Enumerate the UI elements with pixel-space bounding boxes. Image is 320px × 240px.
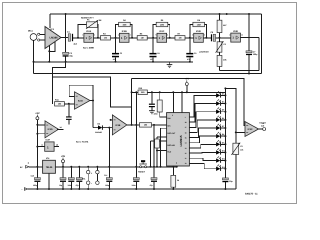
wire LED2 fan [189,104,216,123]
junction [224,127,226,129]
inverter IC2C [156,30,169,42]
capacitor C9 [149,104,159,116]
junction [36,188,38,190]
junction [115,37,117,39]
svg-text:100µ: 100µ [33,184,37,187]
wire C8 bottom [68,120,70,125]
inverter IC2F [45,139,54,152]
wire P1 right [97,25,99,38]
resistor R10 [217,55,222,66]
junction [205,37,207,39]
wire +9V top rail [50,13,262,15]
svg-text:3: 3 [172,114,173,117]
wire LED anode bus [224,88,226,177]
wire pin2 stub [176,165,178,168]
LED D12 [216,165,225,171]
inverter IC2A [82,30,95,42]
wire trigger out [258,128,263,130]
svg-text:P2: P2 [224,43,226,46]
wire [147,37,157,39]
wire LED lead [221,103,225,105]
wire to P3 and -in [225,88,235,143]
svg-text:LM3915: LM3915 [179,135,183,146]
wire top-section bottom line [34,73,262,75]
wire C7 to ground [248,55,250,73]
svg-text:trigger: trigger [260,122,267,125]
wire IC2E out [240,37,259,39]
wire feedback left [116,25,119,38]
wire C14 net vertical [108,128,110,167]
svg-text:+: + [27,161,29,165]
LED D8 [216,132,224,138]
junction [131,91,133,93]
svg-text:IC3C: IC3C [248,128,253,131]
capacitor C8 [66,116,72,120]
junction [96,166,98,168]
wire [111,37,120,39]
svg-text:030275 - 11: 030275 - 11 [245,193,258,196]
wire R15 to ground [172,187,174,189]
junction [36,166,38,168]
svg-text:C10: C10 [31,174,34,177]
junction [153,166,155,168]
wire C13 stub [78,167,80,178]
junction [115,61,117,63]
wire P2 top [219,38,221,42]
svg-text:1M: 1M [141,37,144,40]
wire IC3B out [127,124,140,126]
terminal battery + [20,161,29,169]
svg-text:C3: C3 [120,52,122,55]
junction [48,50,50,52]
trimmer P3 [231,143,240,155]
wire IC1 supply [49,14,51,28]
wire to RHI pin [160,116,167,118]
svg-text:LOW/HIGH: LOW/HIGH [199,51,209,54]
wire IC3C -in [236,131,245,133]
svg-text:C14: C14 [104,174,107,177]
wire C10 to ground [36,182,38,189]
wire LED1 fan [189,95,216,117]
wire LED lead [221,119,225,121]
wire feedback right [130,25,132,38]
op-amp IC3B [112,115,127,135]
svg-text:12: 12 [56,143,58,146]
svg-text:IC3A: IC3A [78,99,83,102]
junction [153,188,155,190]
svg-text:11: 11 [185,157,187,160]
wire IC4 ground pin [48,173,50,189]
junction [108,127,110,129]
wire mic ground vertical [33,40,35,73]
wire ground to P3 [235,154,237,189]
wire [167,37,175,39]
junction [189,61,191,63]
wire V+ pin drop [181,92,183,112]
svg-text:10M: 10M [122,23,126,26]
junction [131,124,133,126]
wire C2 branch [65,14,67,52]
junction [219,37,221,39]
wire K1b stub [96,167,98,171]
svg-text:RESET: RESET [138,171,145,174]
junction [36,133,38,135]
LED D6 [216,116,224,122]
capacitor C17 [222,178,233,183]
junction [87,188,89,190]
junction [159,91,161,93]
capacitor C13 [76,178,82,182]
svg-text:100µ: 100µ [105,184,109,187]
resistor R9 [217,20,222,32]
junction [135,166,137,168]
inverter IC2D [192,30,205,42]
junction [151,91,153,93]
wire IC1 gain pins [49,42,55,51]
resistor R4 [119,22,131,26]
wire IC3D input vertical [36,120,38,167]
capacitor C5 [186,52,196,61]
wire LED7 fan [189,144,216,148]
svg-text:1M: 1M [104,37,107,40]
junction [152,37,154,39]
wire feedback right [205,25,207,38]
capacitor C14 [106,178,112,182]
svg-text:out: out [261,124,265,127]
svg-text:P3: P3 [240,145,242,148]
wire C9 to ground [151,107,153,111]
junction [156,150,158,152]
junction [65,61,67,63]
wire LED lead [221,111,225,113]
wire C4 stub [152,38,154,53]
wire R15 stub [172,167,174,176]
terminal trigger out [260,122,267,131]
junction [248,13,250,15]
resistor R6 [156,22,168,26]
wire C16 net vertical [153,125,155,167]
wire IC3B -in [111,119,113,121]
svg-text:LM386: LM386 [50,37,59,40]
op-amp IC3A [75,92,91,110]
svg-text:10M: 10M [160,23,164,26]
resistor R10 [138,90,147,95]
LED D7 [216,124,224,130]
junction [152,61,154,63]
svg-text:16: 16 [185,131,187,134]
svg-text:1: 1 [185,116,186,119]
wire [129,37,137,39]
wire C7 branch [248,14,250,51]
wire C16 stub [153,167,155,178]
wire +5V rail [55,166,176,168]
LED D4 [216,99,224,105]
junction [65,13,67,15]
wire pin to rail [150,141,152,167]
junction [78,188,80,190]
wire pin stub [151,140,167,142]
junction [224,94,226,96]
wire IC3D -in [37,133,45,135]
junction [48,188,50,190]
svg-text:IC3B: IC3B [115,124,120,127]
resistor R11 [55,102,65,106]
resistor R12 [140,123,152,127]
wire K1 stub [87,167,89,171]
wire feedback left [190,25,193,38]
LED D3 [216,91,224,97]
wire C5 stub [189,38,191,53]
junction [176,166,178,168]
junction [224,111,226,113]
wire K1 middle [87,174,89,181]
wire IC3D out [57,128,63,130]
svg-text:IC2B: IC2B [122,30,127,33]
wire R9 top [219,14,221,20]
svg-text:+5V: +5V [61,155,66,158]
regulator IC4 78L05 [43,157,56,173]
wire R13 bottom stub [159,112,161,117]
wire [90,100,93,102]
junction [70,166,72,168]
capacitor C15 [133,178,139,182]
junction [224,103,226,105]
wire C15 stub [135,167,137,178]
wire IC2F out [54,146,59,148]
wire IC3D +in [37,124,45,126]
wire battery to IC4 [29,166,43,168]
svg-text:RHI: RHI [167,117,171,120]
svg-text:12: 12 [185,152,187,155]
wire C16 to ground [153,182,155,189]
wire K1 to ground [87,184,89,189]
junction [70,188,72,190]
wire IC2E output drop [258,38,260,71]
junction [108,188,110,190]
junction [87,166,89,168]
junction [78,166,80,168]
wire [94,37,101,39]
capacitor C2 [63,52,74,58]
junction [153,124,155,126]
wire ground rail [28,188,236,190]
ground [169,62,171,65]
wire LED lead [221,94,225,96]
wire R13 top stub [159,92,161,100]
junction [224,135,226,137]
wire feedback loop [53,77,132,107]
wire C9 stub [151,92,153,103]
wire IC1 to ground [48,51,50,62]
wire +5V stub [62,163,64,167]
capacitor C3 [112,52,122,61]
junction [36,124,38,126]
op-amp IC3D [45,121,59,138]
junction [169,37,171,39]
wire to D2 [92,101,94,128]
junction [135,91,137,93]
potentiometer P1 [86,20,98,29]
svg-text:C5: C5 [194,52,196,55]
wire pin9 drop [172,92,174,112]
wire LED5 fan [189,128,216,138]
junction [97,37,99,39]
junction [224,87,226,89]
wire mic to IC1 +in [40,33,45,35]
wire LED9 fan [189,158,216,160]
wire REF OUT stub [157,136,167,138]
capacitor C16 [151,178,157,182]
svg-text:10µ: 10µ [59,184,62,187]
wire C15 to ground [135,182,137,189]
svg-text:78L05: 78L05 [46,166,53,169]
wire pin to rail [160,128,162,167]
wire C8 stub [68,104,70,117]
svg-text:10: 10 [185,162,187,165]
junction [219,13,221,15]
wire LED lead [221,160,225,162]
op-amp IC3C [245,122,259,137]
supply terminal +9V [35,112,40,120]
LED D10 [216,148,225,154]
wire P2 to R10 [219,52,221,55]
inverter IC2B [118,30,131,42]
svg-text:IC2 = 4069: IC2 = 4069 [83,46,95,49]
svg-text:2: 2 [176,162,177,165]
wire R11 to IC3A [64,103,74,105]
IC LM3915 IC5 [167,113,190,166]
capacitor C11 [60,178,66,182]
wire right vertical [261,14,263,74]
wire LED4 fan [189,120,216,133]
wire IC2F in [37,146,44,148]
svg-text:IC3 = TL074: IC3 = TL074 [76,140,89,143]
svg-text:REF ADJ: REF ADJ [167,144,175,147]
capacitor C6 [211,31,216,42]
wire C15 net vertical [135,92,137,167]
wire IC1 out [61,37,68,39]
wire R10 to feedback [219,66,221,70]
op-amp IC1 [45,27,61,49]
svg-text:+9V: +9V [35,112,40,115]
wire K1b middle [96,174,98,181]
svg-text:IC2C: IC2C [159,30,164,33]
junction [108,166,110,168]
wire LED lead [221,168,225,170]
junction [135,124,137,126]
wire C3 stub [115,38,117,53]
svg-text:IC2F: IC2F [46,139,51,142]
wire C4 to ground [152,57,154,62]
wire C3 to ground [115,57,117,62]
wire LED lead [221,127,225,129]
svg-text:+9V: +9V [185,78,190,81]
junction [224,143,226,145]
wire LED lead [221,135,225,137]
svg-text:IC3D: IC3D [48,128,53,131]
svg-text:100n: 100n [132,184,136,187]
LED D9 [216,140,224,146]
wire C6 to IC2E [216,37,231,39]
svg-text:-: - [22,188,23,191]
junction [110,119,112,121]
wire feedback left [153,25,156,38]
svg-text:1N4148: 1N4148 [95,131,102,134]
svg-text:47µ: 47µ [150,184,153,187]
junction [68,103,70,105]
wire cap ground rail [34,61,194,63]
supply terminal +5V [61,155,66,163]
supply terminal +9V [185,78,190,86]
wire C1 to IC2A [73,37,84,39]
junction [48,61,50,63]
junction [181,91,183,93]
diode D2 [93,122,112,134]
wire [203,37,211,39]
junction [62,188,64,190]
svg-text:18: 18 [185,121,187,124]
wire signal to IC3C [132,78,245,125]
svg-text:RLO: RLO [167,151,171,154]
wire C2 to lower section [53,57,66,104]
connector K1 [83,170,100,185]
capacitor C10 [34,178,40,182]
wire pin stub [161,127,167,129]
wire mic to IC1 -in [40,39,45,41]
wire C11 to ground [62,182,64,189]
wire C14 stub [108,167,110,178]
junction [226,13,228,15]
wire C14 to ground [108,182,110,189]
wire [156,148,158,151]
capacitor C7 [246,50,258,56]
svg-text:IC2D: IC2D [196,30,201,33]
wire hysteresis feedback [220,69,260,71]
svg-text:13: 13 [185,147,187,150]
wire C5 to ground [189,57,191,62]
junction [224,188,226,190]
wire IC3B output riser [131,78,133,125]
terminal battery - [22,188,28,192]
junction [77,37,79,39]
svg-text:-: - [91,182,92,186]
LED D11 [216,156,225,162]
svg-text:IC2E: IC2E [233,30,238,33]
junction [172,188,174,190]
wire LED8 fan [189,151,216,154]
wire C17 to ground [224,182,226,189]
wire R9 bottom [219,33,221,38]
inverter IC2E [229,30,243,42]
junction [156,166,158,168]
wire LED lead [221,143,225,145]
wire +9V stub [186,86,188,93]
junction [224,119,226,121]
wire supply line B [132,91,226,93]
capacitor C12 [68,178,74,182]
svg-text:15: 15 [185,137,187,140]
wire IC3A feedback [69,85,93,100]
svg-text:14: 14 [185,142,187,145]
wire [185,37,194,39]
wire P1 left [78,25,87,38]
junction [248,73,250,75]
junction [172,91,174,93]
svg-text:REF OUT: REF OUT [167,132,176,135]
junction [150,166,152,168]
pushbutton S1 RESET [138,160,147,173]
svg-text:100n: 100n [68,184,72,187]
